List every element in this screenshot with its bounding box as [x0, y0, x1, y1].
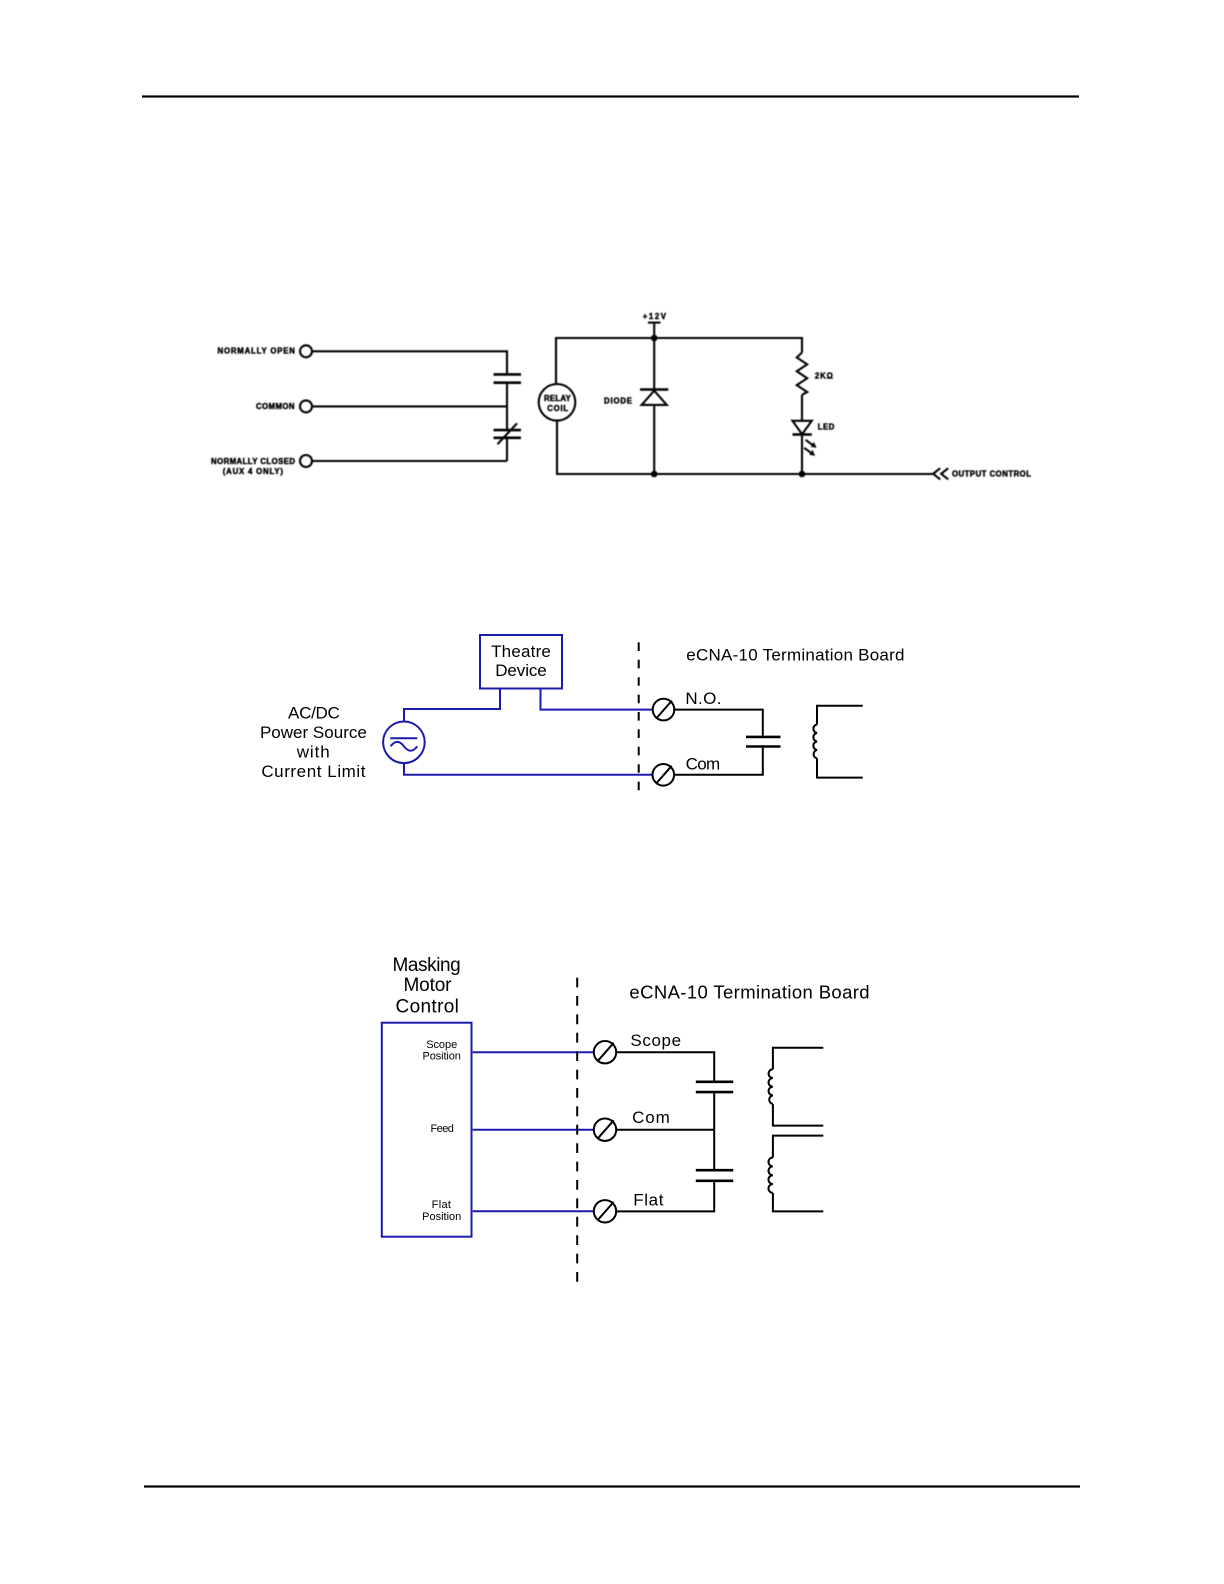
wire feed: [473, 1129, 594, 1131]
node junction bottom diode: [651, 471, 658, 478]
wire bottom rail: [556, 473, 933, 475]
wire scope position: [473, 1051, 594, 1053]
capacitor C1 top plate: [696, 1081, 733, 1084]
wire capacitor to Com: [674, 748, 762, 775]
svg-text:with: with: [296, 742, 330, 761]
LED light arrow 2: [804, 448, 811, 454]
+12V bar: [648, 322, 661, 324]
svg-text:+12V: +12V: [643, 312, 667, 321]
svg-text:Scope: Scope: [630, 1031, 681, 1050]
wire LED down: [801, 436, 803, 474]
LED triangle: [793, 421, 812, 434]
wire COMMON: [312, 405, 507, 407]
svg-text:COMMON: COMMON: [256, 402, 295, 411]
capacitor C2 bottom plate: [696, 1180, 733, 1183]
NC contact bottom plate: [494, 436, 522, 439]
wire top rail: [556, 338, 802, 384]
wire +12V to rail: [653, 324, 655, 338]
wire cap2 to Flat: [616, 1182, 714, 1211]
wire right stub to N.O. terminal: [541, 689, 653, 710]
wire source bottom to Com terminal: [404, 763, 652, 775]
svg-text:Com: Com: [686, 754, 721, 773]
svg-text:Masking: Masking: [392, 955, 460, 976]
svg-text:NORMALLY OPEN: NORMALLY OPEN: [218, 347, 296, 356]
svg-text:Flat: Flat: [432, 1199, 451, 1211]
wire diode branch lower: [653, 405, 655, 474]
diode triangle: [642, 391, 667, 405]
svg-text:OUTPUT CONTROL: OUTPUT CONTROL: [952, 470, 1031, 479]
theatre device box: [480, 635, 562, 689]
LED light arrow 1: [806, 440, 813, 446]
svg-text:Device: Device: [495, 661, 547, 680]
terminal Com: [653, 764, 675, 786]
terminal N.O.: [653, 699, 675, 721]
capacitor bottom plate: [746, 745, 781, 748]
svg-text:NORMALLY CLOSED: NORMALLY CLOSED: [211, 457, 295, 466]
NC contact top plate: [494, 429, 522, 432]
terminal Flat: [594, 1200, 616, 1222]
wire resistor to LED: [801, 395, 803, 421]
terminal Com: [594, 1119, 616, 1141]
AC source sine: [391, 742, 418, 751]
terminal COMMON: [300, 400, 312, 412]
svg-text:Feed: Feed: [431, 1123, 454, 1135]
terminal Scope: [594, 1041, 616, 1063]
svg-text:Flat: Flat: [633, 1191, 664, 1210]
svg-text:Position: Position: [422, 1211, 461, 1223]
svg-text:Motor: Motor: [404, 975, 453, 996]
svg-text:eCNA-10 Termination Board: eCNA-10 Termination Board: [686, 646, 904, 665]
wire N.O. to capacitor: [674, 710, 763, 736]
dashed boundary: [638, 642, 640, 791]
wire NC contact down: [506, 439, 508, 461]
capacitor C1 bottom plate: [696, 1091, 733, 1094]
AC source bar: [390, 737, 417, 739]
resistor 2K zigzag: [797, 353, 807, 395]
wire contact to common node: [506, 384, 508, 406]
bottom rule: [144, 1485, 1080, 1487]
wire Com node to cap2: [713, 1130, 715, 1169]
AC source V1: [383, 722, 425, 764]
masking motor control box: [382, 1023, 472, 1237]
NO contact top plate: [494, 373, 522, 376]
NO contact bottom plate: [494, 381, 522, 384]
svg-text:COIL: COIL: [547, 404, 568, 413]
svg-text:Scope: Scope: [426, 1039, 457, 1051]
relay coil U1: [539, 384, 576, 421]
terminal NORMALLY CLOSED: [300, 455, 312, 467]
svg-text:eCNA-10 Termination Board: eCNA-10 Termination Board: [629, 981, 869, 1002]
wire common to NC contact: [506, 406, 508, 429]
wire cap1 to Com node: [713, 1093, 715, 1129]
wire diode branch upper: [653, 338, 655, 389]
svg-text:LED: LED: [818, 423, 835, 432]
wire NO to contact: [312, 351, 507, 373]
wire left stub: [404, 689, 500, 722]
svg-text:Current Limit: Current Limit: [261, 762, 365, 781]
svg-text:Com: Com: [632, 1108, 670, 1127]
dashed boundary: [576, 978, 578, 1287]
wire relay coil down: [556, 421, 558, 474]
output control chevron 1: [933, 468, 940, 479]
svg-text:AC/DC: AC/DC: [288, 704, 340, 723]
svg-text:Theatre: Theatre: [491, 642, 551, 661]
motor winding 2: [773, 1136, 823, 1158]
node junction top: [651, 335, 658, 342]
motor winding 1: [773, 1048, 823, 1070]
capacitor C2 top plate: [696, 1169, 733, 1172]
wire flat position: [473, 1210, 594, 1212]
svg-text:Power Source: Power Source: [260, 723, 367, 742]
svg-text:Position: Position: [423, 1051, 461, 1063]
svg-text:RELAY: RELAY: [544, 394, 571, 403]
wire NC: [312, 460, 507, 462]
wire Com: [616, 1129, 714, 1131]
capacitor top plate: [746, 736, 781, 739]
output control chevron 2: [941, 468, 948, 479]
relay coil symbol: [817, 706, 863, 725]
svg-text:Control: Control: [396, 997, 459, 1018]
svg-text:2KΩ: 2KΩ: [815, 371, 833, 380]
top rule: [142, 95, 1079, 97]
wire Scope to cap1: [616, 1052, 714, 1080]
NC contact slash: [498, 423, 518, 444]
svg-text:(AUX 4 ONLY): (AUX 4 ONLY): [223, 467, 284, 476]
terminal NORMALLY OPEN: [300, 345, 312, 357]
LED cathode bar: [793, 433, 812, 436]
svg-text:N.O.: N.O.: [685, 689, 721, 708]
diode cathode bar: [640, 388, 668, 391]
svg-text:DIODE: DIODE: [604, 396, 632, 405]
node junction bottom LED: [799, 471, 806, 478]
